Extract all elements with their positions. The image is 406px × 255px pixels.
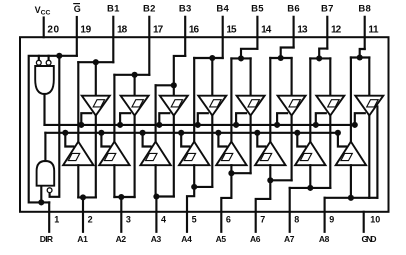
buffer 6A (B6 to A6, tri-state) (278, 96, 306, 116)
wire A7 pin riser (289, 188, 291, 232)
wire enable stub to buffer 5A (236, 113, 246, 125)
wire A5 pin jog (221, 173, 231, 232)
junction enable bus1 ch3 (156, 122, 162, 128)
svg-text:A3: A3 (151, 234, 162, 244)
wire buffer 6A output down (291, 116, 293, 181)
wire B7 to buffer input (329, 58, 331, 95)
bus pin B8 (pin 11) stub (364, 17, 366, 49)
svg-text:B3: B3 (179, 3, 191, 14)
wire buffer output up (A8 to B8) (350, 58, 352, 142)
wire B6 to buffer input (291, 58, 293, 96)
wire A5 node horizontal (231, 172, 250, 174)
wire enable bus 1 (B-to-A enable) (45, 124, 355, 126)
wire B7 horizontal (310, 57, 330, 59)
wire buffer output up (A4 to B4) (193, 58, 195, 142)
svg-text:3: 3 (126, 214, 131, 224)
junction enable bus1 ch6 (274, 122, 280, 128)
svg-text:B5: B5 (251, 3, 264, 14)
junction enable bus1 ch8 (352, 122, 358, 128)
buffer 8B (A8 to B8, tri-state) (336, 142, 366, 166)
svg-text:6: 6 (226, 214, 231, 224)
wire A1 pin riser (82, 197, 84, 231)
svg-text:14: 14 (261, 25, 272, 36)
junction B5 (238, 55, 244, 61)
wire buffer 7A output down (329, 116, 331, 188)
wire B2 horizontal (114, 74, 149, 76)
wire B6 horizontal (270, 57, 291, 59)
junction B6 (278, 55, 284, 61)
svg-text:13: 13 (297, 25, 308, 36)
buffer 7A (B7 to A7, tri-state) (316, 96, 344, 116)
buffer 1B (A1 to B1, tri-state) (63, 142, 93, 166)
wire DIR up left side to NOR gate input (29, 56, 50, 203)
wire buffer output up (A2 to B2) (113, 75, 115, 142)
wire A7 buffer input (309, 165, 311, 188)
junction A5 (228, 170, 234, 176)
svg-text:8: 8 (294, 214, 299, 224)
svg-text:1: 1 (54, 214, 59, 224)
svg-text:19: 19 (80, 25, 91, 36)
wire buffer output up (A6 to B6) (269, 58, 271, 142)
wire B5 to buffer input (250, 58, 252, 95)
wire stub to NOR input bubble (48, 56, 50, 60)
svg-text:B7: B7 (321, 3, 333, 14)
junction B2 (132, 72, 138, 78)
wire enable bus 2 (A-to-B enable) (45, 132, 338, 134)
wire enable stub to buffer 3A (159, 113, 169, 125)
svg-text:B2: B2 (143, 3, 155, 14)
svg-text:11: 11 (368, 25, 379, 36)
svg-text:2: 2 (88, 214, 93, 224)
wire A1 node horizontal (78, 196, 96, 198)
svg-text:GND: GND (362, 234, 377, 244)
wire DIR branch to AND gate (40, 186, 42, 203)
wire enable stub to buffer 5B (218, 133, 226, 147)
svg-text:G: G (74, 4, 81, 14)
wire B5 jog (241, 49, 257, 59)
buffer 2A (B2 to A2, tri-state) (121, 96, 149, 116)
junction enable bus2 ch3 (140, 130, 146, 136)
svg-text:4: 4 (161, 214, 166, 224)
buffer 7B (A7 to B7, tri-state) (295, 142, 325, 166)
svg-text:5: 5 (192, 214, 197, 224)
junction B7 (316, 55, 322, 61)
wire A6 buffer input (269, 165, 271, 180)
wire A8 pin riser (324, 198, 326, 232)
junction A7 (307, 185, 313, 191)
buffer 4B (A4 to B4, tri-state) (179, 142, 209, 166)
buffer 4A (B4 to A4, tri-state) (198, 96, 226, 116)
junction A4 (191, 184, 197, 190)
wire buffer output up (A5 to B5) (230, 58, 232, 141)
junction enable bus2 ch6 (254, 130, 260, 136)
junction A2 (118, 194, 124, 200)
wire enable stub to buffer 2B (101, 133, 109, 147)
junction B1 (93, 59, 99, 65)
wire B8 to buffer input (368, 58, 370, 96)
control pin G-bar (OE, pin 19) stub (76, 17, 78, 56)
wire enable stub to buffer 8A (355, 113, 365, 125)
wire enable stub to buffer 2A (120, 113, 130, 125)
svg-text:B1: B1 (107, 3, 120, 14)
wire A8 node horizontal (325, 197, 370, 199)
svg-text:A1: A1 (77, 234, 88, 244)
gate U2 enable-AND (G-bar input bubbled) (37, 161, 55, 186)
wire B1 horizontal (78, 61, 113, 63)
wire AND output to bus2 (44, 133, 46, 161)
svg-text:A8: A8 (319, 234, 330, 244)
wire A4 buffer input (193, 165, 195, 187)
bus pin B7 (pin 12) stub (326, 17, 328, 49)
svg-text:18: 18 (117, 25, 128, 36)
IC body outline (74HC245) (20, 37, 389, 212)
wire enable stub to buffer 3B (143, 133, 151, 147)
svg-text:9: 9 (329, 214, 334, 224)
wire B5 horizontal (231, 57, 250, 59)
wire NOR output to bus1 (43, 94, 45, 125)
wire A6 node horizontal (270, 179, 291, 181)
bus pin B5 (pin 14) stub (256, 17, 258, 49)
wire B3 horizontal (156, 84, 174, 86)
wire B1 to buffer input (95, 62, 97, 95)
junction enable bus1 ch2 (117, 122, 123, 128)
wire B8 jog (360, 49, 365, 58)
svg-text:B4: B4 (216, 3, 229, 14)
svg-text:DIR: DIR (40, 234, 53, 244)
wire B8 horizontal (351, 56, 369, 58)
junction A6 (267, 177, 273, 183)
wire B2 to buffer input (134, 75, 136, 96)
buffer 5A (B5 to A5, tri-state) (237, 96, 265, 116)
wire A8 buffer input (350, 165, 352, 198)
wire A5 buffer input (230, 165, 232, 173)
junction enable bus2 ch4 (178, 130, 184, 136)
svg-text:VCC: VCC (35, 5, 51, 17)
svg-text:16: 16 (189, 25, 200, 36)
junction enable bus2 ch7 (294, 130, 300, 136)
junction A1 (80, 194, 86, 200)
wire enable stub to buffer 1A (81, 113, 91, 125)
buffer 3A (B3 to A3, tri-state) (160, 96, 188, 116)
wire buffer 4A output down (211, 116, 213, 187)
wire B6 jog (281, 48, 294, 59)
wire enable stub to buffer 4A (198, 113, 208, 125)
wire A3 buffer input (155, 165, 157, 196)
buffer 1A (B1 to A1, tri-state) (82, 96, 110, 116)
junction enable bus1 ch5 (233, 122, 239, 128)
junction B4 (209, 55, 215, 61)
buffer 2B (A2 to B2, tri-state) (99, 142, 129, 166)
svg-text:20: 20 (47, 25, 59, 36)
wire B4 to buffer input (211, 58, 213, 96)
wire buffer 2A output down (134, 116, 136, 198)
wire G-bar down to AND gate (50, 56, 60, 197)
bus pin B6 (pin 13) stub (293, 17, 295, 48)
wire A1 buffer input (77, 165, 79, 197)
wire B7 jog (319, 49, 327, 59)
junction DIR to AND gate input (38, 199, 44, 205)
power pin VCC (pin 20) stub (43, 18, 45, 38)
bus pin B1 (pin 18) stub (112, 17, 114, 62)
wire G-bar to NOR gate input (39, 55, 77, 57)
wire A7 node horizontal (290, 187, 331, 189)
wire enable stub to buffer 4B (181, 133, 189, 147)
junction G-bar branch (56, 53, 62, 59)
ground pin GND (pin 10) stub (363, 212, 365, 232)
svg-text:7: 7 (260, 214, 265, 224)
svg-text:B8: B8 (358, 3, 370, 14)
gate U1 enable-NOR (inputs bubbled) (35, 66, 54, 94)
wire A4 pin jog (187, 187, 194, 232)
wire enable stub to buffer 6A (277, 113, 287, 125)
svg-text:A6: A6 (250, 234, 261, 244)
junction B3 (171, 82, 177, 88)
buffer 8A (B8 to A8, tri-state) (355, 96, 383, 116)
wire buffer 8A right-edge output (376, 107, 378, 198)
junction enable bus1 ch7 (313, 122, 319, 128)
wire A3 node horizontal (156, 195, 174, 197)
wire A2 node horizontal (114, 196, 134, 198)
buffer 6B (A6 to B6, tri-state) (255, 142, 285, 166)
wire enable stub to buffer 7B (297, 133, 305, 147)
wire enable stub to buffer 1B (65, 133, 73, 147)
svg-text:A5: A5 (216, 234, 227, 244)
wire B4 horizontal (194, 57, 223, 59)
wire enable stub to buffer 6B (257, 133, 265, 147)
buffer 5B (A5 to B5, tri-state) (216, 142, 246, 166)
wire B3 to buffer input (173, 85, 175, 95)
junction B8 (357, 54, 363, 60)
svg-text:A7: A7 (284, 234, 295, 244)
wire buffer 1A output down (95, 116, 97, 198)
bus pin B4 (pin 15) stub (222, 17, 224, 58)
wire A8 horizontal extension (369, 197, 377, 199)
junction enable bus2 ch1 (62, 130, 68, 136)
wire buffer output up (A3 to B3) (155, 85, 157, 141)
wire buffer 5A output down (250, 116, 252, 174)
bus pin B2 (pin 17) stub (148, 17, 150, 75)
junction enable bus2 ch8 (335, 130, 341, 136)
svg-text:10: 10 (370, 214, 380, 224)
wire buffer output up (A1 to B1) (77, 62, 79, 141)
svg-text:B6: B6 (287, 3, 299, 14)
junction enable bus2 ch2 (98, 130, 104, 136)
svg-text:A2: A2 (116, 234, 127, 244)
wire buffer output up (A7 to B7) (309, 58, 311, 141)
junction enable bus1 ch1 (78, 122, 84, 128)
wire buffer 3A output down (173, 116, 175, 197)
wire buffer 8A output down (368, 116, 370, 198)
svg-text:12: 12 (331, 25, 342, 36)
control pin DIR (pin 1) stub (48, 202, 50, 231)
wire B3 jog (174, 56, 185, 85)
junction enable bus1 ch4 (195, 122, 201, 128)
junction A8 (348, 195, 354, 201)
wire A2 buffer input (113, 165, 115, 197)
buffer 3B (A3 to B3, tri-state) (140, 142, 170, 166)
svg-text:15: 15 (226, 25, 237, 36)
junction enable bus2 ch5 (215, 130, 221, 136)
wire A6 pin jog (256, 180, 271, 232)
wire enable stub to buffer 7A (316, 113, 326, 125)
bus pin B3 (pin 16) stub (184, 17, 186, 56)
svg-text:A4: A4 (181, 234, 192, 244)
svg-text:17: 17 (153, 25, 164, 36)
wire A4 node horizontal (194, 186, 212, 188)
wire A3 pin riser (155, 197, 157, 232)
wire A2 pin riser (120, 197, 122, 232)
wire enable stub to buffer 8B (338, 133, 346, 147)
junction A3 (153, 193, 159, 199)
